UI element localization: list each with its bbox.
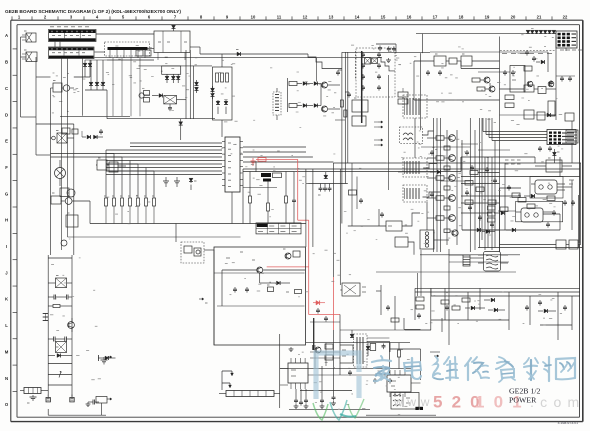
- diode D6031: [303, 104, 321, 108]
- resistor R6056: [340, 100, 343, 107]
- svg-text:N: N: [5, 376, 8, 381]
- ruler top tick marks: [12, 16, 552, 20]
- wire: [404, 328, 421, 330]
- wire: [414, 60, 434, 62]
- wire bus right: [333, 162, 581, 164]
- wire: [434, 239, 449, 241]
- resistor R6110: [518, 195, 526, 202]
- resistor R6120: [416, 297, 424, 301]
- wire red branch: [267, 266, 309, 268]
- wire rung: [48, 257, 72, 259]
- shield box divider: [214, 272, 305, 274]
- diode D6002: [172, 25, 176, 31]
- wire: [421, 146, 470, 148]
- wire: [578, 195, 580, 248]
- capacitor C6057: [345, 92, 351, 98]
- opto enclosure 2: [516, 201, 563, 222]
- wire bus B+: [90, 223, 306, 225]
- op-amp IC6001: [222, 137, 243, 192]
- wire: [461, 183, 500, 185]
- wire: [474, 130, 476, 250]
- resistor R6121: [416, 305, 424, 309]
- surge absorber X6001: [48, 276, 72, 288]
- wire: [498, 210, 516, 212]
- capacitor C6016: [100, 129, 102, 131]
- resistor R6121: [444, 166, 450, 170]
- svg-text:4-168-673-01: 4-168-673-01: [558, 421, 578, 425]
- capacitor C6210b: [569, 76, 571, 78]
- thermal switch S6002: [164, 96, 186, 104]
- dashed coil box: [273, 92, 281, 115]
- test point: [199, 298, 208, 303]
- svg-text:L: L: [5, 323, 8, 328]
- transistor Q6071: [257, 267, 263, 273]
- wire: [388, 75, 390, 190]
- wire: [398, 171, 433, 173]
- capacitor C6007: [86, 400, 99, 407]
- resistor R6021: [221, 73, 224, 82]
- diode D6019a: [83, 60, 87, 77]
- wire bus right2: [461, 156, 535, 158]
- resistor R6040: [446, 58, 461, 64]
- diode D6020: [216, 100, 220, 114]
- diode D6030: [303, 82, 321, 86]
- dashed note line: [500, 50, 556, 52]
- resistor R6132: [398, 343, 401, 369]
- diode D6131: [350, 330, 354, 338]
- wire: [279, 334, 281, 408]
- wire: [413, 61, 415, 100]
- wire bus: [461, 176, 580, 178]
- capacitor C6128: [564, 305, 566, 307]
- transformer T6001b dashed: [400, 127, 423, 144]
- relay RY6002: [461, 54, 472, 66]
- relay RY6001: [434, 54, 446, 66]
- wire: [557, 292, 559, 340]
- box near border: [565, 113, 574, 121]
- wire: [221, 371, 223, 390]
- crystal X6003: [365, 58, 371, 65]
- wire: [339, 363, 341, 375]
- wire: [306, 342, 410, 344]
- wire: [112, 58, 114, 116]
- svg-text:w w w .: w w w .: [393, 395, 438, 409]
- wire: [276, 88, 278, 92]
- wire red low: [309, 314, 340, 316]
- capacitor C6052: [328, 184, 332, 192]
- wire: [312, 169, 314, 247]
- wire primary top: [95, 57, 383, 59]
- wire step t2: [423, 164, 437, 169]
- wire: [389, 343, 391, 352]
- diode D6115: [482, 230, 495, 234]
- svg-text:B: B: [5, 60, 8, 65]
- svg-text:H: H: [5, 218, 8, 223]
- surge absorber X6002: [56, 342, 67, 353]
- resistor R6120: [444, 146, 450, 150]
- wire: [469, 118, 471, 252]
- photo coupler PC6002: [516, 208, 553, 222]
- relay box K6001: [342, 283, 366, 296]
- wire bus left: [51, 153, 107, 155]
- diode block D6010: [96, 158, 126, 172]
- capacitor C6056: [336, 70, 342, 76]
- wire: [420, 53, 422, 130]
- wire main vertical: [341, 52, 343, 223]
- plug P2: [22, 50, 37, 62]
- resistor R6118: [465, 200, 473, 205]
- diode pair D6016: [195, 80, 199, 93]
- resistor R6020: [216, 73, 219, 82]
- capacitor C6116: [553, 210, 555, 212]
- capacitor trio C6003: [43, 314, 49, 321]
- capacitor C6126: [431, 192, 433, 194]
- svg-text:C: C: [5, 86, 8, 91]
- watermark char xiu: [465, 357, 489, 380]
- watermark char liao: [524, 357, 551, 381]
- op-amp IC6003: [387, 370, 411, 397]
- capacitor C6119: [508, 185, 510, 187]
- capacitor C6101: [466, 150, 468, 152]
- capacitor C6137: [374, 378, 376, 380]
- wire bus mid: [306, 183, 348, 185]
- svg-text:A: A: [5, 33, 8, 38]
- diode D6121: [488, 308, 505, 312]
- wire top feed: [416, 33, 526, 35]
- wire: [417, 273, 419, 296]
- diode D6019b: [88, 60, 92, 77]
- wire: [351, 163, 353, 226]
- wire: [339, 315, 341, 346]
- wire: [500, 114, 557, 116]
- capacitor C6136: [349, 370, 351, 372]
- wire verticals center: [305, 169, 307, 247]
- crystal X6004: [372, 58, 378, 64]
- opto enclosure 1: [530, 177, 563, 199]
- wire: [376, 271, 516, 273]
- photo coupler PH6001: [184, 246, 214, 256]
- wire: [340, 329, 405, 331]
- capacitor row C6133: [304, 389, 309, 409]
- wire: [339, 169, 341, 285]
- wire: [580, 163, 582, 244]
- capacitor red C6060: [251, 158, 256, 166]
- transistor Q6002: [51, 193, 90, 204]
- shield box inner line: [217, 305, 305, 307]
- resistor R6046: [505, 103, 514, 108]
- watermark char wei: [433, 357, 458, 380]
- ferrite box FB6003: [273, 171, 282, 178]
- wire: [571, 195, 573, 230]
- resistor stack R6125: [488, 206, 496, 222]
- wire bus pair: [60, 115, 130, 117]
- test point arrow 2: [222, 383, 232, 388]
- diode D6070: [265, 281, 290, 285]
- wire: [36, 76, 51, 78]
- transistor Q6031: [322, 106, 328, 112]
- component value labels (texture): [50, 28, 562, 414]
- wire ladder left rail: [47, 255, 49, 397]
- label cluster: [226, 252, 289, 292]
- wire: [500, 187, 522, 189]
- diode D6006: [165, 74, 169, 83]
- svg-text:M: M: [5, 349, 9, 354]
- wire: [449, 254, 463, 256]
- wire out bus3: [431, 295, 580, 297]
- regulator Q6001: [53, 81, 74, 93]
- wire: [394, 296, 396, 330]
- wire: [106, 206, 154, 224]
- resistor R6116: [465, 181, 473, 186]
- transistor Q6101: [427, 155, 455, 162]
- wire: [60, 58, 62, 250]
- wire primary bottom: [68, 236, 241, 238]
- wire: [411, 382, 421, 384]
- ground: [388, 58, 390, 60]
- wire bus left2: [51, 156, 107, 158]
- wire: [461, 140, 463, 230]
- ruler column numbers 1-22: [18, 15, 568, 20]
- svg-text:14: 14: [355, 15, 360, 20]
- resistor bank R6010-R6015: [104, 196, 156, 206]
- bridge rectifier D6001: [154, 31, 190, 53]
- resistor R6124: [462, 298, 470, 302]
- wire: [221, 54, 223, 67]
- wire: [472, 60, 500, 62]
- label 300V: [569, 180, 574, 184]
- resistor R6050: [267, 182, 270, 224]
- sense verticals: [480, 118, 496, 248]
- wire: [426, 202, 428, 230]
- resistor R6031: [289, 104, 302, 108]
- wire: [21, 36, 27, 38]
- wire: [460, 157, 462, 169]
- component labels texture 2: [64, 47, 581, 409]
- diode D6151: [536, 60, 545, 64]
- wire ladder right rail: [71, 255, 73, 397]
- capacitor C6121: [526, 305, 528, 307]
- wire: [378, 209, 380, 226]
- wire: [50, 93, 52, 255]
- wire: [242, 169, 244, 224]
- transistor Q6104: [427, 215, 455, 222]
- wire: [405, 329, 431, 331]
- wire: [449, 261, 509, 263]
- transistor Q6130: [315, 347, 321, 353]
- wire out bus2: [415, 291, 580, 293]
- resistor R6043: [500, 85, 557, 94]
- resistor R6122: [444, 186, 450, 190]
- wire: [376, 43, 396, 45]
- diode array into connector: [526, 30, 556, 33]
- label above CN6001: [50, 26, 89, 28]
- capacitor C6120: [446, 305, 448, 307]
- resistor R6131: [325, 355, 333, 360]
- capacitor C6125: [431, 150, 433, 152]
- transistor Q6041: [489, 86, 495, 92]
- wire: [421, 34, 423, 54]
- transistor Q6042: [527, 81, 533, 87]
- transformer T6003: [403, 185, 427, 202]
- bus quad to connector: [483, 118, 547, 141]
- wire: [571, 296, 573, 330]
- capacitor C6005: [60, 337, 72, 342]
- capacitor C6304: [317, 308, 319, 310]
- wire: [340, 289, 342, 291]
- transistor Q6040: [484, 77, 490, 83]
- wire: [314, 345, 316, 368]
- capacitor C6115: [547, 222, 549, 224]
- wire: [390, 348, 421, 350]
- capacitor C6110: [564, 200, 566, 202]
- capacitor bank C6055: [361, 52, 381, 91]
- wire: [571, 121, 573, 130]
- filter boxes: [136, 50, 151, 56]
- ferrite bead FB6002: [263, 179, 271, 182]
- wire: [213, 250, 215, 345]
- motor relay M6001: [55, 160, 66, 186]
- wire red B+: [256, 158, 298, 160]
- capacitor C6138: [389, 378, 391, 380]
- capacitor C6113: [479, 215, 481, 217]
- wire: [430, 51, 548, 53]
- wire: [312, 345, 314, 350]
- wire step: [378, 57, 396, 71]
- photo coupler PC6001: [531, 180, 565, 194]
- box part U6203: [370, 344, 376, 351]
- svg-text:18: 18: [459, 15, 464, 20]
- capacitor C6211: [383, 344, 385, 346]
- diode D6130: [366, 343, 370, 356]
- resistor R6045: [505, 95, 514, 100]
- wire: [316, 58, 318, 82]
- wire: [461, 195, 521, 197]
- capacitor C6071: [234, 287, 236, 289]
- resistor R6044: [524, 110, 556, 120]
- watermark logo bracket: [316, 353, 359, 399]
- wire red: [297, 159, 299, 220]
- resistor R6071: [295, 290, 302, 294]
- label marks under connector: [560, 49, 582, 51]
- capacitor row C6131: [294, 389, 299, 409]
- relay S6001: [51, 131, 74, 144]
- wire lower bus: [130, 118, 215, 120]
- diode D6120: [465, 306, 485, 310]
- wire: [403, 318, 405, 329]
- wire: [555, 37, 557, 121]
- connector CN6005: [556, 31, 577, 51]
- wire: [478, 149, 510, 151]
- svg-text:19: 19: [485, 15, 490, 20]
- wire: [420, 254, 520, 256]
- transformer T6005: [478, 252, 508, 272]
- watermark green mark: [313, 399, 364, 420]
- diode red D6060: [313, 301, 325, 306]
- wire: [467, 292, 469, 320]
- resistor R6133: [391, 318, 399, 322]
- wire: [222, 269, 257, 271]
- wire: [221, 120, 223, 137]
- wire: [89, 201, 91, 224]
- wire: [73, 124, 75, 255]
- diode D6101: [462, 228, 500, 232]
- wire: [508, 292, 510, 330]
- wire: [366, 414, 436, 416]
- capacitor C6015: [168, 104, 172, 111]
- wire: [489, 83, 491, 86]
- wire: [263, 269, 305, 271]
- wire IC left pin bus: [106, 143, 222, 175]
- wire: [96, 33, 154, 35]
- line filter dashed box: [105, 42, 150, 56]
- transistor Q6030: [322, 82, 328, 88]
- snubber box: [162, 66, 181, 74]
- wire: [461, 202, 500, 204]
- capacitor bank dashed box: [356, 48, 395, 97]
- capacitor C6122: [418, 313, 420, 315]
- boxes upper center: [352, 98, 368, 126]
- capacitor C6012: [163, 177, 169, 187]
- wire: [300, 390, 352, 392]
- wire: [462, 229, 560, 231]
- capacitor C6053: [292, 172, 296, 224]
- capacitor C6045: [427, 70, 429, 72]
- wire red: [298, 219, 309, 221]
- capacitor C6210: [381, 212, 383, 214]
- wire: [356, 177, 358, 210]
- label marks right: [505, 160, 521, 164]
- connector CN6001: [49, 30, 97, 42]
- capacitor C6305: [325, 316, 327, 318]
- transistor Q6004: [61, 240, 67, 246]
- svg-text:17: 17: [433, 15, 438, 20]
- coil winding: [275, 95, 279, 111]
- wire: [74, 76, 90, 78]
- wire step: [308, 54, 342, 69]
- diode D6113: [430, 170, 441, 174]
- resistor R6119: [512, 193, 520, 198]
- wire thick drop: [313, 318, 315, 350]
- wire: [335, 119, 345, 121]
- box D6047: [548, 101, 555, 116]
- capacitor C6111: [572, 200, 574, 202]
- resistor R6130: [325, 344, 333, 349]
- capacitor C6140: [101, 356, 113, 365]
- wire: [460, 157, 462, 172]
- wire: [367, 337, 389, 339]
- capacitor C6051: [323, 184, 327, 192]
- capacitor C6112: [469, 205, 471, 207]
- diode D6022: [101, 60, 105, 90]
- capacitor C6047: [550, 80, 552, 82]
- ground: [46, 398, 50, 402]
- transistor Q6005: [139, 91, 150, 103]
- svg-text:D: D: [5, 112, 8, 117]
- capacitor C6072: [246, 287, 248, 289]
- wire: [414, 288, 416, 320]
- wire: [121, 58, 123, 116]
- plug P1: [22, 31, 36, 42]
- regulator box U6201: [386, 221, 402, 231]
- wire: [333, 330, 335, 395]
- svg-text:16: 16: [407, 15, 412, 20]
- wire: [328, 84, 340, 86]
- wire: [310, 351, 340, 353]
- resistor R6123: [452, 306, 460, 310]
- wire zigzag: [348, 225, 386, 227]
- wire step t3: [423, 192, 441, 197]
- wire: [534, 157, 536, 163]
